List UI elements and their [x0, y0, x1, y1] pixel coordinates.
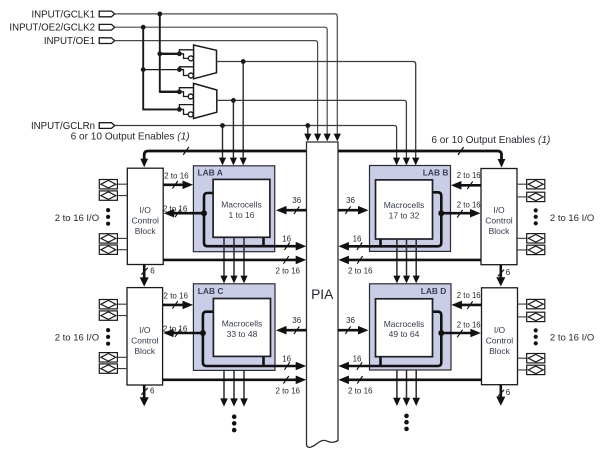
svg-text:2 to 16: 2 to 16 [276, 267, 301, 276]
wire LAB A to LAB C column 3 [243, 237, 245, 276]
svg-text:2 to 16: 2 to 16 [348, 387, 373, 396]
wire OE1 horizontal then down into PIA [115, 41, 318, 136]
SECTION: top input wires [9, 9, 396, 160]
wire mux2 output branch down to LAB A [232, 100, 234, 160]
slash ticks right column [345, 182, 504, 397]
I/O pin B1 [527, 180, 545, 189]
svg-text:Block: Block [489, 346, 511, 356]
svg-text:PIA: PIA [311, 287, 334, 302]
junction dot GCLK1 feeder [157, 12, 162, 17]
tick 6 C [141, 388, 147, 395]
bus LAB D to IOCB D 2 to 16 [441, 332, 472, 335]
wire pin A1 to IOCB A [117, 184, 127, 250]
wire GCLK1 horizontal then down into PIA [115, 14, 338, 136]
svg-text:LAB A: LAB A [198, 168, 223, 178]
svg-text:2 to 16: 2 to 16 [276, 387, 301, 396]
bus LAB A to IOCB A 2 to 16 [173, 212, 205, 215]
wire mux1 input2 complement branch [179, 70, 188, 76]
tick 2to16 B second [457, 210, 462, 218]
I/O pin A3 [99, 234, 117, 243]
arrowhead column2 into LAB D [403, 276, 410, 284]
bus IOCB B to LAB B 2 to 16 [460, 184, 481, 187]
I/O control block C [127, 288, 163, 385]
slash tick OE bus left [183, 147, 189, 155]
wire mux2 input1 feed [160, 91, 180, 93]
tick 16 C [284, 362, 289, 370]
ellipsis dots pins B [534, 208, 538, 212]
bus LAB C to IOCB C 2 to 16 [172, 332, 203, 335]
I/O control block D [482, 288, 518, 385]
local array loop LAB A [204, 193, 300, 246]
arrowhead LAB D to PIA 16 [338, 362, 349, 371]
wire LAB A to LAB C column 2 [233, 237, 235, 276]
SECTION: muxes [141, 45, 416, 160]
ellipsis dots pins D [534, 328, 538, 332]
inversion bubble mux1 input2 [188, 73, 193, 78]
svg-text:Macrocells: Macrocells [384, 200, 425, 210]
svg-text:INPUT/OE2/GCLK2: INPUT/OE2/GCLK2 [9, 23, 95, 34]
junction dot mux1 feed1 right [177, 51, 182, 56]
wire mux1 output branch down to LAB A [242, 62, 244, 161]
bus PIA to LAB C 36 [285, 329, 307, 332]
arrowhead column3 into LAB D [413, 276, 420, 284]
wire LAB B to LAB D column 3 [415, 239, 417, 276]
bus IOCB C fast 6 down [143, 385, 146, 398]
bus PIA to LAB D 36 [338, 329, 360, 332]
wire OE2/GCLK2 horizontal then down into PIA [115, 27, 328, 136]
tick 2to16 C second [175, 329, 180, 337]
svg-text:36: 36 [292, 196, 301, 205]
input buffer GCLRn [99, 123, 115, 129]
svg-text:6 or 10 Output Enables (1): 6 or 10 Output Enables (1) [431, 135, 550, 146]
svg-text:6: 6 [150, 387, 155, 396]
I/O pin A1 [99, 180, 117, 189]
svg-text:LAB B: LAB B [423, 168, 449, 178]
svg-text:INPUT/GCLRn: INPUT/GCLRn [31, 121, 95, 132]
svg-text:2 to 16 I/O: 2 to 16 I/O [55, 213, 99, 224]
arrowhead OE bus into IOCB B [498, 159, 506, 168]
tick 2to16 A top [172, 181, 177, 189]
arrowhead column1 into LAB D [393, 276, 400, 284]
arrowhead below LAB D col2 [403, 398, 411, 406]
junction dot mux1 feed2 left [141, 67, 146, 72]
svg-text:36: 36 [292, 316, 301, 325]
svg-text:Macrocells: Macrocells [384, 319, 425, 329]
mux M1 trapezoid [194, 45, 217, 79]
junction dot loop D [438, 330, 444, 336]
I/O pin B2 [527, 192, 545, 201]
wire mux2 output to LAB B column [217, 100, 407, 160]
junction dot mux2 feed1 [177, 89, 182, 94]
tick 2to16 C pia [283, 376, 288, 384]
svg-text:2 to 16: 2 to 16 [163, 205, 188, 214]
I/O pin D2 [527, 312, 545, 321]
wire mux2 input1 true branch [179, 88, 193, 92]
svg-text:16: 16 [282, 235, 291, 244]
svg-text:6 or 10 Output Enables (1): 6 or 10 Output Enables (1) [71, 132, 190, 143]
wire GCLK2 feeder vertical to muxes [143, 27, 179, 109]
macrocell box LAB B [376, 180, 433, 239]
svg-text:Control: Control [485, 216, 513, 226]
svg-text:2 to 16: 2 to 16 [348, 267, 373, 276]
bus IOCB A fast 6 down [143, 265, 146, 279]
input buffer OE1 [99, 38, 115, 44]
tick 2to16 B top [467, 182, 472, 190]
arrowhead mux2 out into LAB B [403, 158, 410, 166]
svg-text:Macrocells: Macrocells [221, 200, 262, 210]
ellipsis dots below LAB C [232, 414, 237, 419]
arrowhead LAB B to PIA 16 [338, 242, 349, 251]
arrowhead mux2 out into LAB A [230, 158, 237, 166]
bus PIA to LAB A 36 [285, 209, 307, 212]
svg-text:I/O: I/O [140, 205, 152, 215]
wire mux1 input2 true branch [179, 67, 193, 70]
svg-text:INPUT/GCLK1: INPUT/GCLK1 [31, 9, 95, 20]
I/O pin A4 [99, 245, 117, 254]
bus PIA to LAB B 36 [338, 209, 360, 212]
arrowhead GCLRn into LAB A [219, 158, 226, 166]
wire mux2 input1 complement branch [179, 92, 188, 97]
wire mux1 input1 feed [160, 53, 180, 55]
wire mux2 input2 true branch [179, 105, 193, 110]
I/O pin B3 [527, 234, 545, 243]
SECTION: oe line [71, 132, 551, 168]
macrocell box LAB C [213, 299, 270, 357]
arrowhead GCLK1 into PIA [334, 134, 341, 142]
I/O pin C2 [99, 311, 117, 320]
slash ticks left column [141, 181, 299, 395]
svg-text:36: 36 [346, 316, 355, 325]
tick 2to16 A pia [283, 256, 288, 264]
junction dot GCLRn/PIA branch [305, 123, 310, 128]
tick 16 A [284, 243, 289, 251]
svg-text:Control: Control [131, 216, 159, 226]
inversion bubble mux2 input2 [188, 112, 193, 117]
svg-text:36: 36 [346, 196, 355, 205]
I/O pin D3 [527, 354, 545, 363]
wire pin D1 to IOCB D [518, 304, 527, 370]
tick 2to16 B pia [357, 256, 362, 264]
local array loop stub LAB B [379, 239, 382, 246]
svg-text:2 to 16: 2 to 16 [163, 325, 188, 334]
bus IOCB C to PIA 2 to 16 [163, 378, 297, 381]
junction dot mux1 feed1 left [157, 51, 162, 56]
svg-text:2 to 16: 2 to 16 [457, 291, 481, 300]
wire mux2 input2 complement branch [179, 109, 188, 114]
svg-text:Block: Block [135, 226, 157, 236]
macrocell box LAB D [376, 299, 433, 357]
tick 36 C [294, 326, 299, 334]
SECTION: arrows [140, 134, 506, 433]
junction dot GCLK2 feeder [141, 25, 146, 30]
bus IOCB B to PIA 2 to 16 [348, 259, 482, 262]
SECTION: pia [307, 142, 339, 447]
arrowhead GCLRn into LAB B [393, 158, 400, 166]
svg-text:16: 16 [282, 355, 291, 364]
tick 16 D [357, 362, 362, 370]
svg-text:2 to 16 I/O: 2 to 16 I/O [55, 333, 99, 344]
bus IOCB B fast 6 down [499, 265, 502, 278]
wire LAB B to LAB D column 1 [396, 239, 398, 276]
wire mux1 input1 complement branch [179, 54, 188, 59]
bus IOCB A to LAB A 2 to 16 [163, 184, 184, 187]
svg-text:16: 16 [353, 235, 362, 244]
wire mux1 output to LAB B column [217, 62, 416, 161]
tick 36 B [345, 206, 350, 214]
local array loop LAB D [344, 312, 441, 366]
local array loop stub LAB C [262, 356, 265, 366]
tick 36 A [294, 206, 299, 214]
svg-text:49 to 64: 49 to 64 [389, 329, 420, 339]
arrowhead OE bus into IOCB A [140, 159, 148, 168]
wire pin C1 to IOCB C [117, 304, 127, 368]
svg-text:I/O: I/O [494, 325, 506, 335]
wire GCLRn branch down into PIA [307, 126, 309, 137]
local array loop stub LAB D [379, 357, 382, 366]
arrowhead GCLRn into PIA [304, 134, 311, 142]
wire below LAB C column 3 [243, 370, 245, 399]
I/O pin C3 [99, 353, 117, 362]
arrowhead OE1 into PIA [314, 134, 321, 142]
svg-text:17 to 32: 17 to 32 [389, 210, 420, 220]
svg-text:33 to 48: 33 to 48 [227, 329, 258, 339]
inversion bubble mux2 input1 [188, 94, 193, 99]
LAB B block [370, 166, 451, 252]
tick 6 D [498, 390, 504, 397]
svg-text:2 to 16 I/O: 2 to 16 I/O [550, 213, 594, 224]
bus IOCB A to PIA 2 to 16 [163, 259, 297, 262]
I/O pin C1 [99, 300, 117, 309]
svg-text:6: 6 [150, 267, 155, 276]
tick 2to16 D second [457, 330, 462, 338]
arrowhead column3 into LAB C [240, 276, 247, 284]
slash tick OE bus right [458, 147, 464, 155]
arrowhead LAB A to PIA 16 [296, 242, 307, 251]
wire LAB A to LAB C column 1 [223, 237, 225, 276]
wire GCLRn horizontal then down into LAB B [115, 126, 397, 161]
I/O pin A2 [99, 191, 117, 200]
svg-text:Block: Block [489, 226, 511, 236]
wire GCLRn branch down into LAB A [222, 126, 224, 161]
tick 6 A [141, 268, 147, 275]
arrowhead below LAB D col3 [412, 398, 420, 406]
PIA interconnect column [307, 142, 339, 447]
tick 2to16 A second [175, 209, 180, 217]
svg-text:I/O: I/O [139, 325, 151, 335]
svg-text:2 to 16: 2 to 16 [164, 292, 189, 301]
arrowhead GCLK2 into PIA [324, 134, 331, 142]
LAB A block [193, 166, 274, 252]
bus LAB B to IOCB B 2 to 16 [441, 212, 471, 215]
arrowhead column1 into LAB C [220, 276, 227, 284]
arrowhead below LAB C col3 [240, 398, 248, 406]
local array loop stub LAB A [262, 237, 265, 246]
junction dot loop B [438, 210, 444, 216]
svg-text:INPUT/OE1: INPUT/OE1 [44, 36, 95, 47]
bus IOCB D to LAB D 2 to 16 [461, 304, 482, 307]
junction dot mux1 output branch [241, 59, 246, 64]
svg-text:1 to 16: 1 to 16 [229, 210, 255, 220]
svg-text:2 to 16: 2 to 16 [457, 171, 481, 180]
local array loop LAB C [203, 312, 300, 366]
arrowhead mux1 out into LAB A [240, 158, 247, 166]
bus IOCB D fast 6 down [499, 385, 502, 398]
LAB C block [193, 284, 275, 371]
wire below LAB C column 2 [233, 370, 235, 399]
I/O pin D1 [527, 299, 545, 308]
wire LAB B to LAB D column 2 [406, 239, 408, 276]
arrowhead LAB C to PIA 16 [296, 362, 307, 371]
tick 16 B [357, 243, 362, 251]
mux M2 trapezoid [194, 83, 217, 118]
wire below LAB D column 1 [396, 370, 398, 399]
I/O pin C4 [99, 364, 117, 373]
svg-text:Control: Control [131, 336, 159, 346]
I/O control block A [127, 168, 163, 264]
wire mux1 input1 true branch [179, 50, 193, 54]
junction dot mux2 output branch [231, 98, 236, 103]
junction dot GCLRn/LAB A branch [220, 123, 225, 128]
wire 6 or 10 Output Enables bus [144, 151, 501, 162]
tick 2to16 C top [172, 301, 177, 309]
arrowhead mux1 out into LAB B [412, 158, 419, 166]
junction dot mux2 feed2 [177, 107, 182, 112]
svg-text:2 to 16: 2 to 16 [457, 201, 481, 210]
input buffer OE2/GCLK2 [99, 24, 115, 30]
wire below LAB D column 3 [415, 370, 417, 399]
SECTION: texts [150, 171, 511, 397]
wire below LAB D column 2 [406, 370, 408, 399]
arrowhead column2 into LAB C [230, 276, 237, 284]
ellipsis dots pins A [106, 208, 110, 212]
ellipsis dots pins C [106, 328, 110, 332]
tick 2to16 D pia [357, 376, 362, 384]
svg-text:I/O: I/O [493, 205, 505, 215]
tick 36 D [345, 326, 350, 334]
inversion bubble mux1 input1 [188, 56, 193, 61]
input buffer GCLK1 [99, 11, 115, 17]
arrowhead below LAB D col1 [393, 398, 401, 406]
macrocell box LAB A [213, 179, 270, 237]
svg-text:2 to 16 I/O: 2 to 16 I/O [550, 333, 594, 344]
svg-text:16: 16 [353, 355, 362, 364]
arrowhead below LAB C col2 [230, 398, 238, 406]
local array loop LAB B [344, 192, 441, 246]
svg-text:2 to 16: 2 to 16 [457, 321, 481, 330]
junction dot loop A [201, 210, 207, 216]
tick 2to16 D top [467, 301, 472, 309]
I/O pin D4 [527, 365, 545, 374]
I/O control block B [481, 169, 517, 265]
junction dot loop C [200, 330, 206, 336]
wire mux1 input2 feed [143, 69, 179, 71]
wire pin B1 to IOCB B [517, 184, 527, 250]
wire below LAB C column 1 [223, 370, 225, 399]
svg-text:LAB D: LAB D [421, 286, 447, 296]
bus IOCB D to PIA 2 to 16 [348, 378, 482, 381]
bus IOCB C to LAB C 2 to 16 [163, 304, 184, 307]
tick 6 B [498, 270, 504, 277]
svg-text:6: 6 [506, 268, 511, 277]
SECTION: labs [193, 166, 451, 371]
svg-text:2 to 16: 2 to 16 [164, 172, 189, 181]
junction dot mux1 feed2 right [177, 67, 182, 72]
LAB D block [370, 284, 452, 370]
ellipsis dots below LAB D [404, 414, 409, 419]
wire GCLK1 feeder vertical to muxes [160, 14, 180, 92]
svg-text:Macrocells: Macrocells [222, 319, 263, 329]
svg-text:6: 6 [506, 388, 511, 397]
SECTION: iocbs [127, 168, 518, 385]
I/O pin B4 [527, 245, 545, 254]
svg-text:Block: Block [134, 346, 156, 356]
svg-text:LAB C: LAB C [198, 286, 224, 296]
svg-text:Control: Control [486, 336, 514, 346]
wire mux2 input2 feed [143, 108, 179, 110]
arrowhead below LAB C col1 [220, 398, 228, 406]
